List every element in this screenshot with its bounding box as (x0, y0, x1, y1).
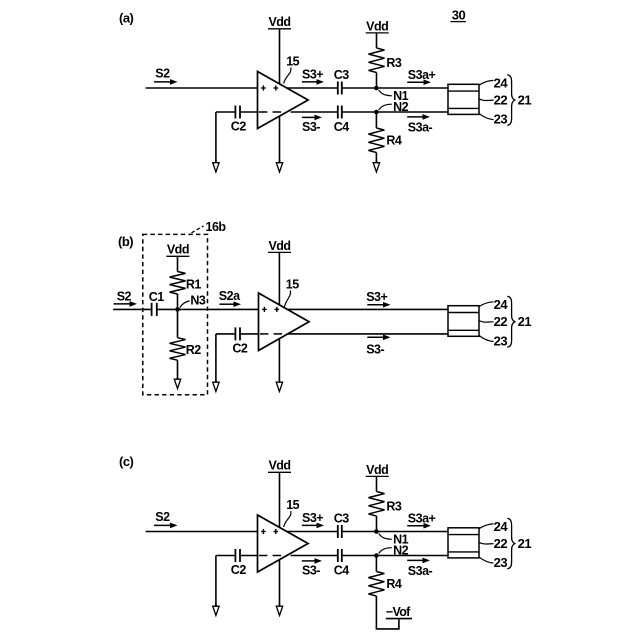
capacitor C2 (fig b) (234, 327, 236, 340)
wire: C2 branch down (fig a) (215, 112, 217, 163)
node N1 (fig c) (374, 529, 379, 534)
svg-text:Vdd: Vdd (268, 239, 290, 253)
dashed box 16b (143, 234, 208, 394)
svg-text:S2: S2 (155, 510, 170, 524)
svg-text:S3a+: S3a+ (408, 68, 436, 82)
svg-text:24: 24 (494, 76, 509, 91)
wire: C1 to node N3 to op-amp (fig b) (158, 308, 259, 310)
svg-text:S3+: S3+ (366, 290, 387, 304)
svg-text:S3+: S3+ (302, 511, 323, 525)
lead line to 23 (fig b) (479, 336, 493, 342)
power Vdd (amp supply, fig a) (268, 15, 291, 29)
op-amp 15 (fig c) (258, 515, 309, 572)
connector block 21 (fig a) (448, 84, 479, 114)
reference 15 leader (fig c) (284, 511, 291, 527)
wire: R3 to node N1 (fig a) (376, 73, 378, 89)
wire: C2 branch down (fig c) (215, 556, 217, 607)
ground arrow below C2 (fig b) (213, 380, 219, 392)
svg-text:R3: R3 (386, 500, 402, 514)
wire: op-amp output S3+ to C3 (fig c) (287, 531, 337, 533)
wire: C2 to op-amp (fig b) (241, 333, 259, 335)
svg-text:C3: C3 (334, 68, 350, 82)
signal arrow S2 (fig a) (154, 81, 172, 83)
lead line to 24 (fig c) (479, 524, 493, 529)
reference 15 leader (fig a) (284, 68, 291, 84)
wire: C2 branch corner (fig b) (216, 333, 235, 335)
svg-text:23: 23 (494, 555, 508, 570)
wire: R4 to -Vof terminal (fig c) (376, 596, 399, 629)
wire: node N2 to R4 (fig a) (375, 112, 377, 128)
svg-text:21: 21 (518, 92, 532, 107)
leader to 16b (dashed) (192, 226, 204, 233)
svg-text:R4: R4 (386, 577, 402, 591)
capacitor C1 (fig b) (151, 303, 153, 316)
resistor R3 (fig a) (369, 48, 385, 73)
minus dashes on inverting line (fig c) (259, 555, 281, 557)
ground arrow below R4 (fig a) (373, 160, 379, 172)
svg-text:R4: R4 (386, 133, 402, 147)
resistor R4 (fig a) (368, 128, 384, 153)
figure number 30 (451, 7, 467, 22)
brace for 21 (fig a) (507, 75, 515, 126)
capacitor C4 (fig c) (337, 549, 339, 562)
node N2 (fig c) (374, 553, 379, 558)
svg-text:15: 15 (286, 55, 299, 69)
plus marks on non-inverting line (fig b) (262, 307, 279, 312)
signal arrow S2a (fig b) (220, 303, 236, 305)
svg-text:30: 30 (452, 7, 466, 22)
power Vdd (amp supply, fig b) (268, 239, 291, 253)
ground arrow below op-amp (fig b) (276, 380, 282, 392)
node N3 (fig b) (175, 307, 180, 312)
svg-text:21: 21 (518, 536, 532, 551)
resistor R3 (fig c) (369, 492, 385, 517)
svg-text:S3-: S3- (302, 564, 320, 578)
svg-text:(a): (a) (119, 10, 134, 25)
wire: S2 input to C1 (fig b) (113, 308, 151, 310)
wire: C3 to node N1 to connector (fig a) (343, 87, 448, 89)
wire: Vdd to R3 (fig c) (376, 477, 378, 492)
wire: inverting input from C2 (fig a) (216, 111, 235, 113)
capacitor C4 (fig a) (337, 106, 339, 119)
power Vdd (amp supply, fig c) (268, 459, 291, 473)
svg-text:S3a-: S3a- (408, 120, 433, 134)
wire: op-amp output S3- to C4 (fig a) (291, 111, 337, 113)
leader N2 (fig a) (379, 104, 392, 110)
signal arrow S2 (fig c) (154, 524, 172, 526)
wire: C2 to op-amp (fig c) (241, 555, 258, 557)
svg-text:16b: 16b (206, 220, 227, 234)
svg-text:Vdd: Vdd (268, 15, 290, 29)
wire: C2 to op-amp (fig a) (241, 111, 258, 113)
svg-text:22: 22 (494, 314, 508, 329)
wire: input S2 to op-amp (fig c) (146, 531, 258, 533)
wire: output S3+ to connector (fig b) (287, 308, 448, 310)
capacitor C3 (fig c) (337, 525, 339, 538)
op-amp 15 (fig b) (259, 293, 310, 351)
ground arrow below C2 (fig a) (213, 160, 219, 172)
ground arrow below op-amp (fig a) (276, 160, 282, 172)
svg-text:24: 24 (494, 297, 509, 312)
svg-text:C1: C1 (149, 290, 165, 304)
connector block 21 (fig c) (448, 528, 479, 558)
signal arrow S3+ (fig a) (302, 81, 318, 83)
wire: node N3 to R2 (fig b) (177, 309, 179, 337)
wire: Vdd rail through op-amp (fig c) (279, 473, 281, 606)
svg-text:21: 21 (518, 314, 532, 329)
svg-text:Vdd: Vdd (167, 243, 189, 257)
lead line to 22 (fig a) (479, 99, 493, 101)
brace for 21 (fig b) (507, 296, 515, 347)
wire: C4 to node N2 to connector (fig c) (343, 555, 448, 557)
svg-text:Vdd: Vdd (366, 19, 388, 33)
signal arrow S3a- (fig c) (407, 559, 424, 561)
svg-text:S3-: S3- (302, 120, 320, 134)
wire: Vdd to R1 (fig b) (177, 257, 179, 272)
minus dashes on inverting line (fig b) (260, 333, 282, 335)
minus dashes on inverting line (fig a) (259, 111, 281, 113)
svg-text:S3a+: S3a+ (408, 512, 436, 526)
svg-text:R2: R2 (186, 343, 202, 357)
signal arrow S3- (fig a) (302, 116, 316, 118)
svg-text:Vdd: Vdd (366, 463, 388, 477)
connector block 21 (fig b) (448, 306, 479, 337)
svg-text:S3+: S3+ (302, 68, 323, 82)
svg-text:S2a: S2a (219, 289, 241, 303)
svg-text:S3-: S3- (366, 343, 384, 357)
reference 15 leader (fig b) (284, 291, 290, 308)
svg-text:(b): (b) (118, 234, 133, 249)
wire: C4 to node N2 to connector (fig a) (343, 111, 448, 113)
wire: Vdd rail through op-amp (fig b) (278, 253, 280, 382)
node N2 (fig a) (374, 110, 379, 115)
lead line to 22 (fig b) (479, 321, 493, 323)
svg-text:N2: N2 (393, 544, 409, 558)
signal arrow S3- (fig b) (367, 336, 384, 338)
wire: R1 to node N3 (fig b) (177, 294, 179, 309)
svg-text:24: 24 (494, 519, 509, 534)
wire: inverting input from C2 (fig c) (216, 555, 235, 557)
svg-text:C4: C4 (334, 564, 350, 578)
svg-text:Vdd: Vdd (268, 459, 290, 473)
capacitor C2 (fig a) (234, 106, 236, 119)
ground arrow below R2 (fig b) (174, 377, 180, 389)
wire: R2 down (fig b) (177, 360, 179, 379)
brace for 21 (fig c) (507, 518, 515, 569)
svg-text:N2: N2 (393, 100, 409, 114)
node N1 (fig a) (374, 86, 379, 91)
svg-text:15: 15 (286, 498, 299, 512)
svg-text:R3: R3 (386, 56, 402, 70)
svg-text:23: 23 (494, 334, 508, 349)
wire: op-amp output S3- to C4 (fig c) (291, 555, 337, 557)
wire: op-amp output S3+ to C3 (fig a) (287, 87, 337, 89)
capacitor C2 (fig c) (234, 549, 236, 562)
ground arrow below op-amp (fig c) (276, 604, 282, 616)
wire: R4 down (fig a) (375, 153, 377, 163)
svg-text:(c): (c) (119, 454, 134, 469)
ground arrow below C2 (fig c) (213, 604, 219, 616)
leader N1 (fig c) (379, 534, 392, 540)
svg-text:S2: S2 (155, 67, 170, 81)
wire: C3 to node N1 to connector (fig c) (343, 531, 448, 533)
svg-text:C2: C2 (231, 119, 247, 133)
wire: node N2 to R4 (fig c) (375, 556, 377, 572)
svg-text:C2: C2 (231, 563, 247, 577)
svg-text:22: 22 (494, 93, 508, 108)
signal arrow S3- (fig c) (302, 560, 316, 562)
wire: input S2 to op-amp (fig a) (146, 87, 258, 89)
svg-text:N3: N3 (190, 294, 206, 308)
svg-text:C2: C2 (232, 341, 248, 355)
svg-text:15: 15 (286, 277, 299, 291)
lead line to 23 (fig c) (479, 557, 493, 563)
wire: R3 to node N1 (fig c) (376, 516, 378, 532)
svg-text:−Vof: −Vof (386, 605, 411, 619)
svg-text:S3a-: S3a- (408, 564, 433, 578)
leader N3 (fig b) (180, 301, 190, 308)
svg-text:23: 23 (494, 112, 508, 127)
leader N2 (fig c) (379, 548, 392, 554)
lead line to 22 (fig c) (479, 542, 493, 544)
power Vdd (R3 supply, fig a) (366, 19, 389, 33)
wire: Vdd to R3 (fig a) (376, 33, 378, 48)
plus marks on non-inverting line (fig c) (261, 529, 278, 534)
wire: Vdd rail through op-amp (fig a) (279, 29, 281, 162)
terminal label -Vof (fig c) (386, 605, 412, 619)
lead line to 24 (fig b) (479, 302, 493, 307)
signal arrow S3a+ (fig c) (407, 525, 425, 527)
lead line to 24 (fig a) (479, 80, 493, 85)
wire: output S3- to connector (fig b) (287, 333, 448, 335)
svg-text:C4: C4 (334, 120, 350, 134)
signal arrow S3+ (fig c) (302, 524, 318, 526)
lead line to 23 (fig a) (479, 114, 493, 120)
svg-text:S2: S2 (117, 289, 132, 303)
power Vdd (bias network, fig b) (166, 243, 189, 257)
svg-text:C3: C3 (334, 512, 350, 526)
resistor R4 (fig c) (368, 572, 384, 597)
signal arrow S2 (fig b) (114, 303, 131, 305)
svg-text:22: 22 (494, 536, 508, 551)
signal arrow S3a+ (fig a) (407, 81, 425, 83)
signal arrow S3a- (fig a) (407, 116, 424, 118)
svg-text:R1: R1 (186, 277, 202, 291)
resistor R2 (fig b) (170, 338, 186, 361)
signal arrow S3+ (fig b) (367, 304, 384, 306)
resistor R1 (fig b) (170, 272, 186, 295)
capacitor C3 (fig a) (337, 82, 339, 95)
wire: C2 branch down (fig b) (215, 334, 217, 382)
op-amp 15 (fig a) (258, 72, 309, 129)
power Vdd (R3 supply, fig c) (366, 463, 389, 477)
plus marks on non-inverting line (fig a) (261, 85, 278, 90)
leader N1 (fig a) (379, 90, 392, 96)
